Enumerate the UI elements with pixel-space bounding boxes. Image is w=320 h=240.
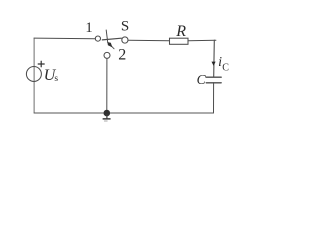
wire: contact 2 down to bottom rail junction xyxy=(106,58,108,110)
label Us xyxy=(44,67,59,84)
label iC xyxy=(218,55,229,73)
svg-text:R: R xyxy=(175,23,186,40)
wire: switch common to resistor xyxy=(128,39,170,42)
switch S common contact xyxy=(122,37,128,43)
ground xyxy=(103,115,110,122)
svg-text:1: 1 xyxy=(85,20,92,36)
wire: right edge upper (corner down to capacitor) xyxy=(213,40,216,77)
capacitor C top plate xyxy=(206,76,221,78)
current arrow iC on right edge xyxy=(212,62,216,66)
capacitor C bottom plate xyxy=(206,82,221,84)
polarity label + xyxy=(38,61,44,67)
resistor R xyxy=(170,38,189,44)
wire: left edge (top-left corner down through source to bottom rail) xyxy=(33,38,35,113)
wire: resistor to top-right corner xyxy=(188,39,216,42)
junction node (contact-2 branch joins bottom rail) xyxy=(104,110,111,117)
svg-text:C: C xyxy=(197,72,207,87)
wire: top left segment from source corner to switch contact 1 xyxy=(34,37,95,40)
wire: right edge lower (capacitor to bottom rail) xyxy=(213,83,215,113)
svg-text:S: S xyxy=(121,19,129,35)
wire: bottom rail xyxy=(34,112,213,114)
switch throw arrow from arm down toward contact 2 xyxy=(106,30,114,49)
switch S contact 1 xyxy=(95,36,100,41)
svg-text:s: s xyxy=(54,74,58,84)
switch arm (closed between 1 and S) xyxy=(102,38,121,40)
svg-text:2: 2 xyxy=(118,46,126,63)
switch S contact 2 xyxy=(104,52,110,58)
svg-text:C: C xyxy=(222,62,229,73)
voltage source Us xyxy=(26,67,41,82)
